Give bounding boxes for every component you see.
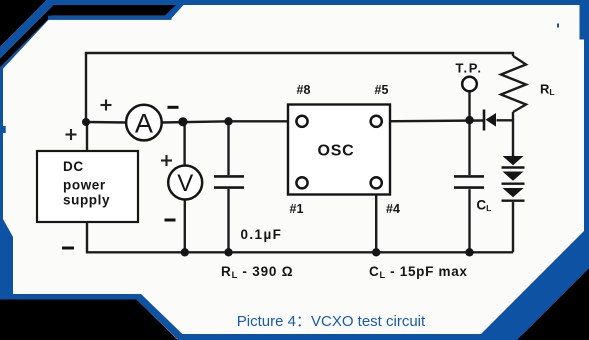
svg-text:power: power (63, 178, 106, 193)
svg-text:#8: #8 (297, 83, 311, 97)
svg-text:V: V (177, 170, 193, 197)
svg-text:supply: supply (63, 193, 110, 208)
svg-text:A: A (135, 108, 153, 138)
svg-text:Picture 4：VCXO test circuit: Picture 4：VCXO test circuit (237, 313, 426, 330)
svg-text:OSC: OSC (317, 143, 354, 160)
svg-text:T.P.: T.P. (455, 61, 482, 76)
svg-text:0.1µF: 0.1µF (241, 227, 283, 242)
svg-text:DC: DC (63, 159, 84, 174)
svg-text:#1: #1 (290, 202, 304, 216)
svg-text:#5: #5 (375, 83, 389, 97)
svg-text:#4: #4 (386, 202, 400, 216)
